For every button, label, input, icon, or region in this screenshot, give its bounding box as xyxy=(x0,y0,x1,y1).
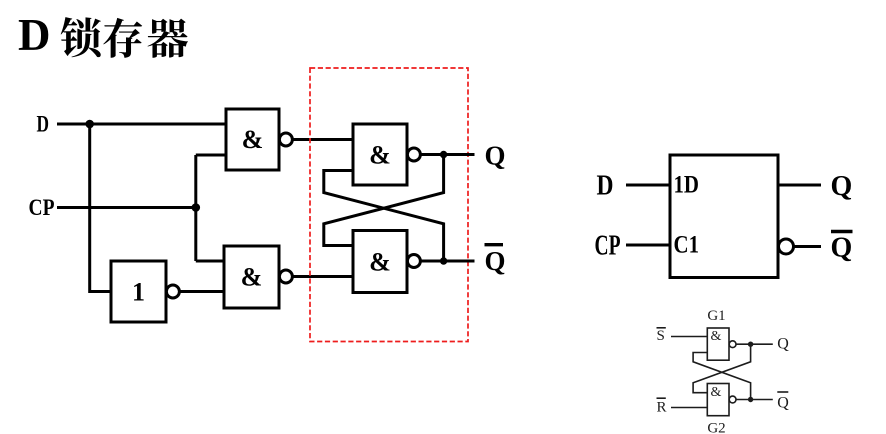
wire Rbar to G2 xyxy=(671,407,707,409)
wire G2 output to Qbar xyxy=(736,399,773,401)
inverter bubble Qbar block xyxy=(779,239,794,254)
wire Sbar to G1 xyxy=(671,336,707,338)
wire CP block xyxy=(626,244,670,247)
wire D vertical branch xyxy=(90,124,111,292)
svg-text:C1: C1 xyxy=(674,232,700,259)
title char 存 xyxy=(103,18,142,58)
svg-text:1: 1 xyxy=(132,278,145,307)
wire feedback Qbar to upper gate xyxy=(324,171,444,262)
svg-text:D: D xyxy=(37,112,50,137)
wire Q output xyxy=(420,153,474,156)
wire Q block xyxy=(778,184,821,187)
junction on D wire xyxy=(85,120,94,129)
not gate 1 xyxy=(111,261,179,322)
wire D horizontal xyxy=(57,123,226,126)
svg-text:D: D xyxy=(18,10,51,60)
nand gate G3 upper-left xyxy=(226,109,292,170)
svg-text:S: S xyxy=(657,328,665,344)
svg-text:&: & xyxy=(241,263,263,292)
block symbol D latch xyxy=(670,155,778,278)
svg-text:Q: Q xyxy=(777,336,789,353)
wire feedback Qbar to G1 xyxy=(693,353,751,400)
svg-text:Q: Q xyxy=(485,246,506,276)
wire G1 output to Q xyxy=(736,343,773,345)
svg-text:CP: CP xyxy=(595,231,621,262)
junction on CP wire xyxy=(192,203,201,212)
wire Qbar output xyxy=(420,260,474,263)
nand gate latch upper xyxy=(353,124,420,185)
svg-text:&: & xyxy=(369,141,391,170)
wire G4 output xyxy=(292,275,353,278)
wire CP to upper nand input xyxy=(196,154,226,157)
nand gate G2 small xyxy=(707,384,736,416)
svg-text:&: & xyxy=(242,125,264,154)
wire Qbar block xyxy=(794,245,822,248)
label Rbar input xyxy=(657,398,667,415)
wire not gate output xyxy=(179,290,224,293)
label Qbar block output xyxy=(831,232,853,264)
junction Q small xyxy=(748,342,753,347)
svg-text:Q: Q xyxy=(485,141,506,171)
dashed latch boundary box xyxy=(310,68,468,342)
svg-text:Q: Q xyxy=(831,171,853,202)
svg-text:CP: CP xyxy=(29,195,55,220)
wire CP to lower nand input xyxy=(196,260,224,263)
nand gate latch lower xyxy=(353,231,420,293)
svg-text:D: D xyxy=(597,171,614,202)
junction Qbar small xyxy=(748,397,753,402)
junction Q xyxy=(440,151,447,158)
title char 器 xyxy=(148,19,188,58)
svg-text:R: R xyxy=(657,400,667,416)
wire G3 output xyxy=(292,138,353,141)
junction Qbar xyxy=(440,257,447,264)
svg-text:Q: Q xyxy=(831,233,853,264)
svg-text:&: & xyxy=(711,329,722,344)
svg-text:G1: G1 xyxy=(707,308,725,324)
wire D block xyxy=(626,184,670,187)
label Sbar input xyxy=(657,328,666,344)
svg-text:&: & xyxy=(711,385,722,400)
nand gate G1 small xyxy=(707,328,736,360)
nand gate G4 lower-left xyxy=(224,246,292,308)
wire feedback Q to G2 xyxy=(693,344,751,393)
svg-text:G2: G2 xyxy=(707,421,725,434)
title char 锁 xyxy=(61,17,101,57)
svg-text:Q: Q xyxy=(777,395,789,412)
wire feedback Q to lower gate xyxy=(324,155,444,246)
label Qbar output xyxy=(485,245,506,276)
svg-text:&: & xyxy=(369,248,391,277)
svg-text:1D: 1D xyxy=(674,172,700,199)
wire CP horizontal xyxy=(57,206,196,209)
wire CP vertical branch xyxy=(194,155,197,261)
label Qbar small xyxy=(777,392,789,412)
